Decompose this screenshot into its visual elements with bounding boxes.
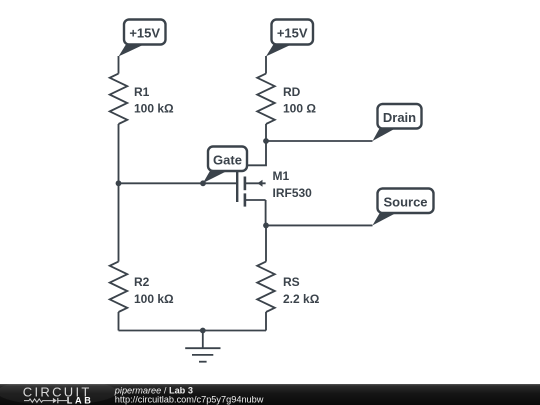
svg-text:R2: R2 (134, 275, 150, 289)
label Source tail (373, 213, 398, 226)
wire R1 to gate node (118, 124, 120, 262)
footer logo resistor zigzag and diode (24, 399, 67, 402)
label Source box (378, 189, 434, 214)
ground (185, 331, 220, 362)
label +15V left box (124, 20, 166, 45)
junction node at R1/gate (116, 180, 122, 186)
resistor R1 (110, 74, 128, 124)
M1 body lead with arrow (246, 182, 266, 184)
svg-text:http://circuitlab.com/c7p5y7g9: http://circuitlab.com/c7p5y7g94nubw (115, 394, 264, 404)
M1 channel lower bar (244, 193, 247, 206)
svg-text:100 kΩ: 100 kΩ (134, 292, 174, 306)
svg-text:Gate: Gate (213, 152, 242, 167)
resistor R2 (110, 262, 128, 312)
resistor RS (257, 262, 275, 312)
M1 channel upper bar (244, 177, 247, 191)
svg-text:2.2 kΩ: 2.2 kΩ (283, 292, 320, 306)
svg-text:R1: R1 (134, 85, 150, 99)
label Drain tail (373, 128, 398, 142)
svg-text:RD: RD (283, 85, 301, 99)
svg-text:RS: RS (283, 275, 300, 289)
svg-text:LAB: LAB (67, 395, 94, 405)
footer logo glow (0, 379, 117, 405)
value label M1 (273, 169, 313, 200)
M1 source lead (246, 199, 266, 201)
svg-text:IRF530: IRF530 (273, 186, 313, 200)
M1 gate bar (236, 170, 238, 202)
junction node at gate label (200, 180, 206, 186)
wire right branch top (V+ to RD) (265, 56, 267, 74)
label Gate tail (203, 170, 228, 183)
value label R2 (134, 275, 174, 306)
svg-text:+15V: +15V (129, 25, 160, 40)
wire bottom rail (119, 330, 267, 332)
value label R1 (134, 85, 174, 116)
resistor RD (257, 74, 275, 124)
M1 arrowhead (257, 180, 262, 187)
value label RS (283, 275, 320, 306)
wire source node to label Source (266, 224, 373, 226)
svg-text:Drain: Drain (383, 110, 416, 125)
label +15V right box (272, 20, 314, 45)
wire left branch top (V+ to R1) (118, 56, 120, 74)
svg-text:100 kΩ: 100 kΩ (134, 102, 174, 116)
wire gate (119, 182, 237, 184)
wire source node to RS (265, 225, 267, 261)
junction node at ground (200, 328, 206, 334)
footer logo diode cathode bar (57, 398, 59, 403)
footer bar (0, 384, 540, 405)
wire source node to M1 source (265, 200, 267, 225)
wire drain node to M1 drain (247, 141, 266, 165)
label +15V right tail (266, 44, 294, 57)
wire RD to drain node (265, 124, 267, 141)
svg-text:+15V: +15V (277, 25, 308, 40)
svg-text:Source: Source (383, 194, 427, 209)
label Gate box (208, 147, 247, 172)
svg-text:100 Ω: 100 Ω (283, 102, 316, 116)
wire drain node to label Drain (266, 140, 373, 142)
label +15V left tail (119, 44, 146, 57)
value label RD (283, 85, 316, 116)
transistor M1 IRF530 (236, 170, 266, 207)
junction node at source (263, 223, 269, 229)
label Drain box (378, 104, 422, 129)
svg-text:M1: M1 (273, 169, 290, 183)
wire R2 bottom (118, 312, 120, 331)
wire RS bottom (265, 312, 267, 331)
footer logo diode triangle (53, 398, 57, 403)
junction node at drain (263, 138, 269, 144)
